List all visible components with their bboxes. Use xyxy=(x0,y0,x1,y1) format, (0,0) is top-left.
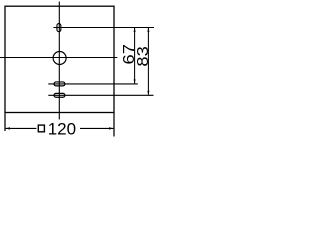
bottom dimension line right segment xyxy=(80,127,113,129)
right extension line below plate xyxy=(113,113,115,137)
dimension 67 top arrow xyxy=(134,28,136,32)
dimension line 67 shaft xyxy=(134,28,136,84)
top slot hole xyxy=(57,24,61,32)
dimension 67 bottom arrow xyxy=(134,79,136,83)
extension line through slot B xyxy=(48,94,153,96)
upper slot A xyxy=(54,82,65,86)
lower slot B xyxy=(54,93,65,97)
dimension line 83 shaft xyxy=(147,28,149,95)
svg-text:83: 83 xyxy=(134,46,151,66)
dimension 83 bottom arrow xyxy=(147,91,149,95)
plate outline (square mounting plate) xyxy=(5,6,114,112)
extension line through slot A xyxy=(48,83,138,85)
bottom dimension right arrow xyxy=(109,127,114,129)
bottom dimension left arrow xyxy=(5,127,10,129)
horizontal centerline through center hole xyxy=(0,57,117,59)
center hole circle xyxy=(53,52,66,65)
square symbol of label xyxy=(38,125,44,132)
svg-text:120: 120 xyxy=(48,120,76,139)
extension line through top slot xyxy=(53,27,154,29)
vertical centerline xyxy=(58,2,60,120)
left extension line below plate xyxy=(4,113,6,132)
dimension 83 top arrow xyxy=(147,28,149,32)
bottom dimension line left segment xyxy=(6,127,37,129)
